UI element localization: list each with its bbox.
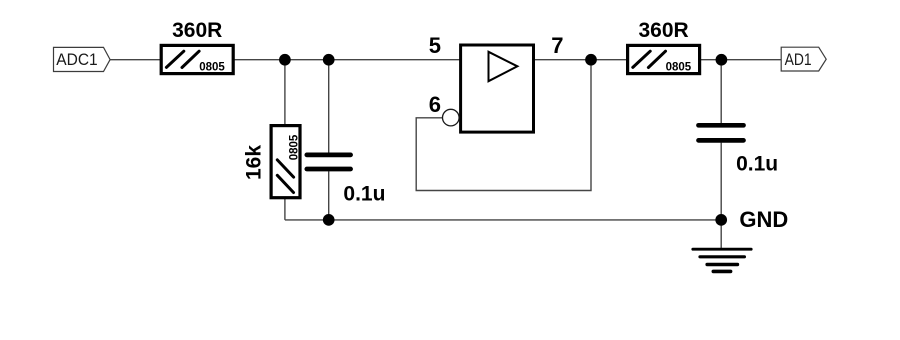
wire GND junction down to ground symbol <box>720 220 722 249</box>
node AD1 output tag <box>781 47 826 71</box>
wire R1 to op-amp input (pin 5) <box>233 59 460 61</box>
resistor R3 360R 0805 <box>628 19 700 74</box>
svg-text:0.1u: 0.1u <box>736 152 778 175</box>
wire junction B down to C1 top plate <box>328 60 330 153</box>
svg-text:16k: 16k <box>243 145 266 180</box>
wire junction A down to 16k resistor <box>284 60 286 125</box>
svg-text:0805: 0805 <box>666 61 692 73</box>
wire ADC1 to R1 <box>110 59 161 61</box>
svg-text:360R: 360R <box>172 19 222 42</box>
svg-text:6: 6 <box>429 92 441 117</box>
junction C (ground rail at C1) <box>323 214 335 226</box>
wire feedback loop from output junction to pin 6 bubble <box>416 60 591 191</box>
wire op-amp output (pin 7) to R3 <box>534 59 627 61</box>
resistor R2 16k 0805 (vertical) <box>243 126 301 198</box>
node ADC1 input tag <box>54 47 111 71</box>
wire ground rail <box>285 219 721 221</box>
ground symbol <box>693 249 751 271</box>
junction E (output node to C2) <box>716 54 728 66</box>
svg-text:GND: GND <box>739 207 788 232</box>
wire R3 to AD1 <box>700 59 782 61</box>
wire junction D down to C2 top plate <box>720 60 722 123</box>
svg-text:5: 5 <box>429 33 441 58</box>
capacitor C1 0.1u <box>307 155 386 206</box>
op-amp U1 buffer <box>461 45 534 132</box>
svg-text:AD1: AD1 <box>785 50 812 69</box>
wire C2 bottom plate to GND junction <box>720 143 722 220</box>
svg-text:ADC1: ADC1 <box>56 50 97 69</box>
wire 16k resistor bottom to ground rail <box>284 199 286 220</box>
inversion bubble on pin 6 <box>443 109 460 126</box>
resistor R1 360R 0805 <box>161 19 233 74</box>
svg-text:7: 7 <box>551 33 563 58</box>
svg-text:0805: 0805 <box>199 61 225 73</box>
svg-text:360R: 360R <box>638 19 688 42</box>
capacitor C2 0.1u <box>699 125 779 175</box>
junction D (output feedback node) <box>585 54 597 66</box>
junction A <box>279 54 291 66</box>
svg-text:0805: 0805 <box>288 134 300 160</box>
junction B <box>323 54 335 66</box>
wire C1 bottom plate to ground rail <box>328 171 330 220</box>
junction F (GND node) <box>715 214 727 226</box>
svg-text:0.1u: 0.1u <box>343 182 385 205</box>
